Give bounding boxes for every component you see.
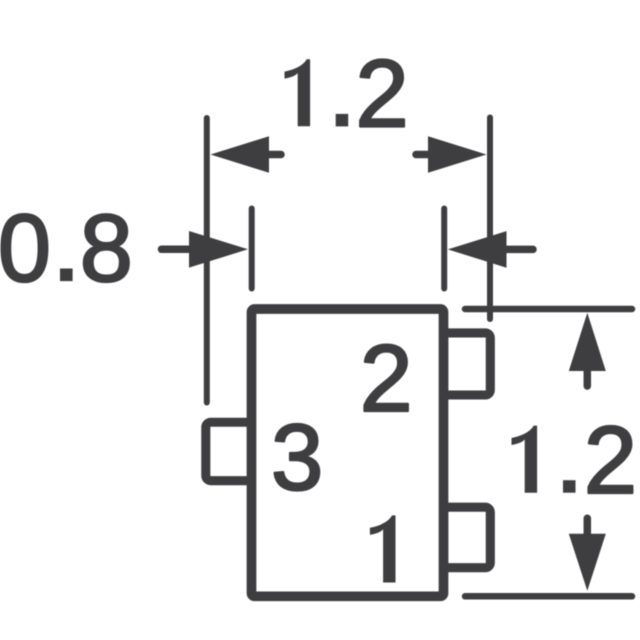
extension line right (top dim) <box>487 118 493 320</box>
arrow up (right dim) <box>569 313 606 371</box>
dimension text 1.2 right : digit 1 <box>512 426 538 493</box>
pad 3 (left lead) <box>206 422 252 480</box>
pad 2 (top right lead) <box>444 333 491 395</box>
svg-text:0: 0 <box>0 196 51 302</box>
extension line top (right dim) <box>465 306 632 313</box>
dimension text 1.2 top : digit 1 <box>285 59 311 126</box>
dimension text 1.2 right : period <box>563 480 576 493</box>
tick left (0.8 dim) <box>249 209 255 289</box>
pad 1 (bottom right lead) <box>444 507 491 568</box>
svg-text:2: 2 <box>584 407 637 514</box>
svg-text:8: 8 <box>80 196 133 302</box>
extension line left (top dim) <box>204 118 210 403</box>
pin label 1 <box>370 515 396 582</box>
dimension text 1.2 top : period <box>336 114 349 127</box>
dimension text 0.8 : period <box>60 269 73 282</box>
extension line bottom (right dim) <box>465 593 632 600</box>
svg-text:2: 2 <box>360 326 413 432</box>
tick right (0.8 dim) <box>441 209 447 289</box>
arrow right (top dim, points right) <box>428 136 487 173</box>
arrow (0.8 dim, points right at left tick) <box>189 231 248 268</box>
arrow left (top dim, points left) <box>211 136 270 173</box>
arrow (0.8 dim, points left at right tick) <box>448 231 507 268</box>
svg-text:2: 2 <box>355 41 408 148</box>
arrow down (right dim) <box>569 534 606 591</box>
svg-text:3: 3 <box>271 405 323 510</box>
package body <box>252 309 444 596</box>
